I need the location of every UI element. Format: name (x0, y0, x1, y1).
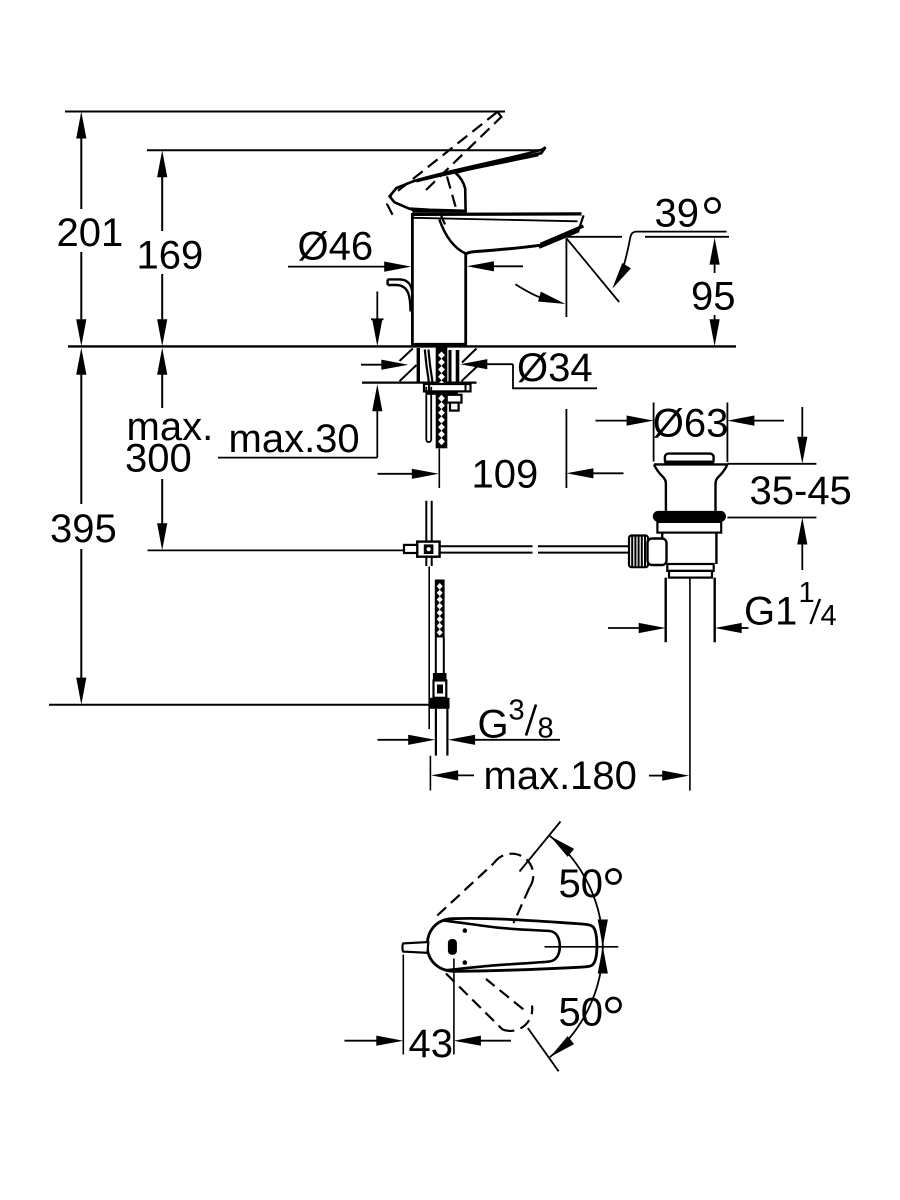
horizontal actuating rod (440, 546, 630, 552)
pull rod upper section (425, 387, 427, 441)
faucet body top band (412, 210, 467, 213)
svg-text:201: 201 (57, 211, 124, 255)
svg-text:max.30: max.30 (229, 417, 360, 461)
valve lock rings (667, 564, 713, 571)
handle front lower jaw (409, 209, 418, 212)
svg-text:50: 50 (559, 991, 604, 1035)
svg-text:Ø34: Ø34 (517, 346, 593, 390)
dimension 169 (157, 150, 167, 346)
svg-text:3: 3 (509, 695, 525, 727)
svg-text:G1: G1 (744, 590, 797, 634)
countertop deck line (68, 345, 736, 347)
bottom reference line (hose end level) (49, 704, 430, 706)
deck hatch left (400, 349, 413, 362)
limiter slot (448, 939, 457, 955)
svg-text:G: G (478, 703, 509, 747)
handle axis centerline (545, 946, 619, 948)
aerator outer face (541, 226, 584, 244)
rod joint clamp (417, 542, 439, 557)
knurled adjuster knob (629, 536, 648, 568)
spout top edge lower line (414, 218, 578, 222)
pop-up lever hook on body (388, 279, 413, 292)
39 deg shelf line and swing arc (621, 232, 727, 276)
spout underside (466, 245, 544, 254)
valve centerline extension (689, 577, 691, 791)
mounting nut (447, 395, 462, 403)
vertical line from spout tip (565, 238, 567, 317)
pull rod lower thin line (428, 567, 430, 730)
spout tip face (578, 215, 583, 230)
svg-text:395: 395 (50, 507, 117, 551)
deck hatch right (462, 349, 477, 363)
lever top inner highlight line (417, 155, 539, 181)
valve flange taper left (654, 464, 666, 511)
svg-text:8: 8 (538, 713, 554, 745)
svg-text:35-45: 35-45 (750, 469, 852, 513)
top reference line (raised handle height 201) (65, 111, 505, 113)
faucet body base band on deck (412, 343, 467, 346)
svg-text:Ø63: Ø63 (653, 402, 729, 446)
svg-text:50: 50 (559, 862, 604, 906)
dimension 43 (403, 955, 454, 1055)
dimension 35-45 (727, 407, 816, 570)
dimension G1 1/4 (608, 627, 749, 629)
svg-text:43: 43 (409, 1022, 454, 1066)
dimension 395 (76, 348, 86, 705)
svg-text:39: 39 (655, 192, 700, 236)
rod clevis on valve (648, 539, 667, 566)
svg-text:95: 95 (691, 275, 736, 319)
faucet body right edge (464, 254, 467, 346)
valve flange shoulder (654, 463, 727, 465)
dimension G3/8 arrows (378, 739, 561, 741)
dimension 95 (710, 238, 720, 265)
valve flange taper right (716, 464, 728, 511)
shank right wall in deck (449, 350, 452, 383)
ghost handle rotated up 50 deg (dashed) (437, 854, 533, 923)
hose end tube (435, 709, 437, 756)
valve tailpipe (665, 578, 667, 643)
tab washer bar (417, 348, 420, 382)
dimension max.30 (218, 292, 384, 458)
svg-text:Ø46: Ø46 (298, 225, 374, 269)
dimension diameter 46 (288, 266, 386, 268)
max.300 reference line at pull rod level (148, 549, 406, 551)
pull rod through joint (425, 557, 427, 566)
valve o-ring seal (653, 511, 726, 522)
pull rod above joint (425, 501, 427, 542)
valve upper flange band (657, 522, 721, 533)
screw dots (463, 928, 468, 933)
threaded shank column (lattice) (436, 348, 448, 449)
reference line (handle height 169) (147, 149, 544, 151)
hose braided section (435, 580, 445, 638)
spout inner sweep curve (439, 220, 465, 254)
hose smooth tube (435, 638, 437, 674)
aerator inner face (539, 231, 579, 248)
raised handle (dashed ghost) (387, 112, 502, 229)
dimension 201 (76, 112, 86, 347)
lever handle (solid, closed position) (390, 147, 546, 211)
valve plug cap (665, 454, 714, 464)
50 deg lower: extension line and arc (528, 1028, 559, 1071)
joint set screw (404, 545, 417, 553)
handle top view inner plateau (443, 920, 560, 970)
hose crimp ferrule (433, 673, 447, 681)
hose hex nut G3/8 (430, 698, 450, 709)
svg-text:300: 300 (125, 437, 192, 481)
swivel arc under spout (515, 284, 552, 301)
flat washer (427, 391, 458, 394)
degree circle for 39 (706, 199, 720, 213)
svg-text:4: 4 (821, 600, 837, 632)
50 deg upper: extension line and arc (520, 822, 561, 872)
tab washer curved slots (425, 350, 429, 382)
valve body walls (661, 533, 663, 564)
svg-text:max.180: max.180 (484, 754, 637, 798)
dimension max.180 (429, 756, 431, 791)
dimension diameter 63 (596, 403, 785, 463)
faucet body left edge (411, 213, 414, 346)
spout top edge upper line (412, 212, 581, 216)
dimension diameter 34 with leader (361, 364, 597, 388)
dimension max.300 (157, 348, 167, 551)
spout tip horizontal reference line (567, 236, 622, 238)
deck bottom line (362, 382, 477, 384)
spout axis diagonal line (567, 238, 620, 302)
ghost handle rotated down 50 deg (dashed) (446, 974, 532, 1031)
dimension 109 (378, 472, 624, 475)
svg-text:169: 169 (137, 234, 204, 278)
horseshoe washer (424, 384, 471, 391)
handle top view outer outline (427, 918, 597, 971)
svg-text:109: 109 (472, 453, 539, 497)
shank centerline (438, 449, 440, 489)
hose connector body (434, 681, 447, 698)
svg-text:1: 1 (799, 577, 815, 609)
pop-up lever tip (top view) (402, 942, 428, 953)
